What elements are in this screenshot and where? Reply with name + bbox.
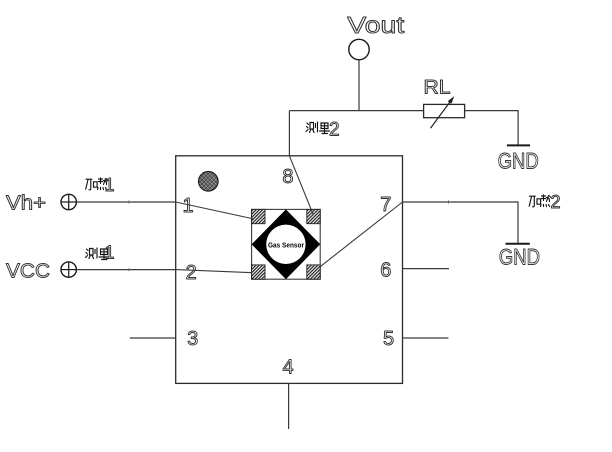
- ground GND2: [499, 244, 540, 270]
- svg-text:2: 2: [551, 192, 561, 212]
- pin2 stub end tick: [128, 268, 131, 271]
- sensor diamond: [252, 209, 321, 279]
- sensor pad bottom-left: [252, 265, 265, 279]
- svg-text:3: 3: [187, 328, 198, 350]
- wire VCC to pin2: [76, 269, 175, 271]
- svg-text:8: 8: [282, 166, 293, 188]
- wire RL to GND1 corner: [465, 111, 518, 146]
- terminal Vh+: [61, 194, 76, 209]
- pin1 stub end tick: [128, 201, 131, 204]
- pin7 stub end tick: [447, 201, 450, 204]
- wire pin8 to sensor pad: [289, 156, 313, 214]
- wire pin2 to sensor pad: [176, 270, 253, 273]
- label 加热1: [86, 178, 108, 190]
- pin 3 stub wire: [130, 337, 176, 339]
- gas sensor element body: [252, 209, 321, 279]
- label 测量1: [86, 248, 110, 260]
- wire pin7 to GND2 corner: [403, 202, 519, 244]
- svg-text:4: 4: [283, 356, 294, 378]
- svg-text:6: 6: [380, 259, 391, 281]
- IC package body U1: [176, 156, 403, 384]
- svg-text:RL: RL: [424, 78, 451, 99]
- svg-text:2: 2: [329, 119, 340, 140]
- wire top horizontal left of RL: [289, 110, 423, 112]
- wire Vh+ to pin1: [76, 201, 175, 203]
- pin 5 stub wire: [403, 337, 449, 339]
- wire sensor pad to pin7: [320, 202, 403, 267]
- svg-text:VCC: VCC: [6, 261, 50, 283]
- sensor pad bottom-right: [307, 265, 320, 279]
- ground GND1: [498, 145, 539, 173]
- sensor pad top-left: [252, 209, 265, 223]
- svg-text:GND: GND: [498, 149, 539, 174]
- sensor window circle: [266, 225, 305, 264]
- svg-text:1: 1: [105, 175, 115, 195]
- pin 6 stub wire: [403, 268, 450, 270]
- svg-text:Gas Sensor: Gas Sensor: [268, 240, 304, 249]
- label 测量2: [306, 122, 330, 134]
- sensor pad top-right: [307, 209, 320, 223]
- terminal Vout: [349, 39, 369, 59]
- pin 4 stub wire: [288, 383, 290, 429]
- wire Vout to top wire: [358, 60, 360, 111]
- orientation dot (hatched): [199, 172, 219, 192]
- svg-text:Vh+: Vh+: [6, 193, 46, 215]
- resistor RL: [424, 96, 465, 128]
- svg-text:5: 5: [383, 328, 394, 350]
- wire pin1 to sensor pad: [176, 202, 254, 219]
- terminal VCC: [61, 262, 76, 277]
- svg-text:1: 1: [105, 243, 115, 263]
- svg-text:2: 2: [186, 262, 197, 284]
- label 加热2: [529, 195, 550, 207]
- svg-text:Vout: Vout: [347, 12, 405, 38]
- wire pin8 vertical: [288, 111, 290, 156]
- svg-text:GND: GND: [499, 245, 540, 270]
